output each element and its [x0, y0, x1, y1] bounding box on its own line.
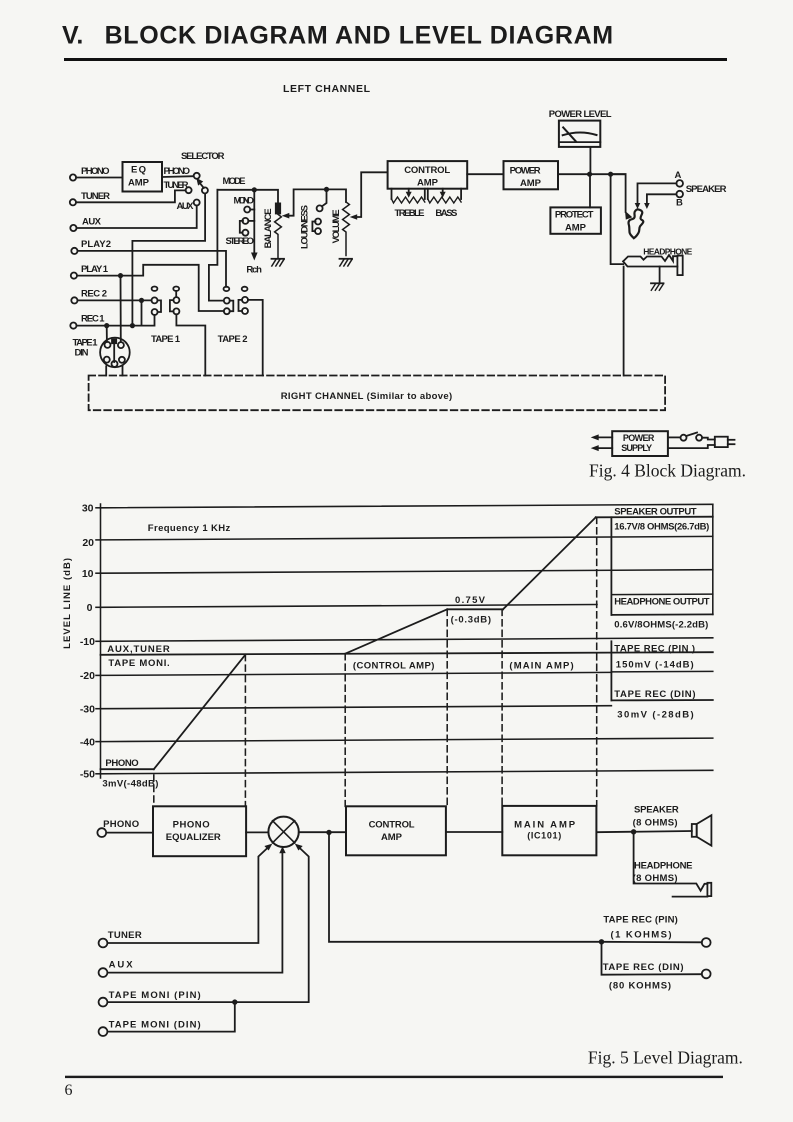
- svg-text:TAPE MONI (DIN): TAPE MONI (DIN): [109, 1020, 201, 1031]
- svg-text:6: 6: [65, 1082, 73, 1099]
- svg-text:RIGHT CHANNEL (Similar to a: RIGHT CHANNEL (Similar to above): [281, 391, 453, 402]
- svg-text:SUPPLY: SUPPLY: [621, 443, 652, 453]
- svg-text:(CONTROL AMP): (CONTROL AMP): [353, 661, 435, 672]
- svg-text:POWER: POWER: [623, 433, 655, 443]
- svg-text:150mV (-14dB): 150mV (-14dB): [616, 660, 694, 671]
- svg-text:AMP: AMP: [381, 832, 403, 843]
- svg-text:(1 KOHMS): (1 KOHMS): [611, 930, 672, 941]
- svg-text:TAPE REC (DIN): TAPE REC (DIN): [603, 962, 684, 973]
- svg-text:(8 OHMS): (8 OHMS): [633, 873, 678, 884]
- svg-text:LEFT CHANNEL: LEFT CHANNEL: [283, 83, 371, 95]
- svg-text:(-0.3dB): (-0.3dB): [451, 615, 491, 626]
- svg-text:REC 2: REC 2: [81, 289, 107, 300]
- svg-text:MODE: MODE: [223, 176, 246, 187]
- svg-text:Frequency 1 KHz: Frequency 1 KHz: [148, 523, 231, 534]
- svg-text:(80 KOHMS): (80 KOHMS): [609, 981, 671, 992]
- svg-text:TAPE REC (DIN): TAPE REC (DIN): [614, 689, 695, 700]
- svg-text:TUNER: TUNER: [81, 191, 110, 202]
- svg-text:-20: -20: [80, 670, 95, 682]
- svg-text:(MAIN AMP): (MAIN AMP): [509, 661, 573, 672]
- svg-text:-10: -10: [80, 636, 95, 648]
- svg-text:V.: V.: [62, 22, 83, 50]
- svg-text:0.75V: 0.75V: [455, 595, 486, 606]
- svg-text:TUNER: TUNER: [108, 930, 142, 941]
- svg-text:BALANCE: BALANCE: [263, 208, 274, 248]
- svg-text:REC 1: REC 1: [81, 314, 105, 325]
- svg-text:CONTROL: CONTROL: [404, 165, 450, 176]
- svg-text:EQUALIZER: EQUALIZER: [166, 832, 221, 843]
- svg-text:B: B: [676, 198, 683, 209]
- svg-text:AUX: AUX: [109, 960, 134, 971]
- svg-text:SELECTOR: SELECTOR: [181, 151, 225, 162]
- svg-text:TAPE MONI.: TAPE MONI.: [108, 658, 169, 669]
- svg-text:TAPE REC (PIN): TAPE REC (PIN): [603, 915, 677, 926]
- svg-text:PROTECT: PROTECT: [555, 210, 594, 221]
- svg-text:0: 0: [87, 602, 93, 614]
- svg-text:VOLUME: VOLUME: [331, 209, 342, 243]
- svg-text:SPEAKER OUTPUT: SPEAKER OUTPUT: [614, 507, 696, 518]
- svg-text:Fig. 5 Level Diagram.: Fig. 5 Level Diagram.: [588, 1048, 743, 1068]
- svg-text:PHONO: PHONO: [81, 166, 110, 177]
- svg-text:TAPE 2: TAPE 2: [218, 334, 248, 345]
- svg-text:AUX,TUNER: AUX,TUNER: [107, 644, 170, 655]
- svg-text:PLAY2: PLAY2: [81, 239, 111, 250]
- svg-text:TAPE MONI (PIN): TAPE MONI (PIN): [109, 990, 201, 1001]
- svg-text:(8 OHMS): (8 OHMS): [633, 818, 678, 829]
- svg-text:AMP: AMP: [417, 178, 439, 189]
- svg-text:CONTROL: CONTROL: [369, 820, 415, 831]
- svg-text:0.6V/8OHMS(-2.2dB): 0.6V/8OHMS(-2.2dB): [614, 620, 708, 631]
- svg-text:HEADPHONE: HEADPHONE: [634, 861, 693, 872]
- svg-text:AMP: AMP: [565, 223, 587, 234]
- svg-text:SPEAKER: SPEAKER: [686, 184, 727, 195]
- svg-text:TAPE 1: TAPE 1: [151, 334, 181, 345]
- svg-text:PHONO: PHONO: [105, 758, 138, 769]
- svg-text:PHONO: PHONO: [173, 820, 210, 831]
- svg-text:MAIN AMP: MAIN AMP: [514, 820, 576, 831]
- svg-text:MONO: MONO: [234, 196, 255, 207]
- svg-text:30: 30: [82, 503, 94, 515]
- svg-text:Fig. 4 Block Diagram.: Fig. 4 Block Diagram.: [589, 461, 746, 481]
- svg-text:3mV(-48dB): 3mV(-48dB): [102, 779, 158, 790]
- svg-text:AUX: AUX: [82, 217, 102, 228]
- svg-text:PLAY 1: PLAY 1: [81, 264, 109, 275]
- svg-text:AUX: AUX: [177, 201, 195, 212]
- svg-text:30mV (-28dB): 30mV (-28dB): [617, 710, 693, 721]
- svg-text:10: 10: [82, 568, 94, 580]
- svg-text:A: A: [675, 170, 682, 181]
- svg-text:TAPE REC (PIN ): TAPE REC (PIN ): [614, 644, 695, 655]
- svg-text:EQ: EQ: [131, 165, 146, 176]
- svg-text:DIN: DIN: [75, 348, 89, 359]
- svg-text:POWER LEVEL: POWER LEVEL: [549, 109, 612, 120]
- svg-text:POWER: POWER: [510, 166, 541, 177]
- svg-text:PHONO: PHONO: [164, 166, 191, 177]
- svg-text:(IC101): (IC101): [527, 831, 561, 841]
- svg-text:AMP: AMP: [520, 178, 542, 189]
- svg-text:TREBLE: TREBLE: [395, 208, 425, 219]
- svg-text:PHONO: PHONO: [103, 819, 139, 830]
- svg-text:BASS: BASS: [435, 208, 457, 219]
- svg-text:20: 20: [82, 537, 94, 549]
- svg-text:SPEAKER: SPEAKER: [634, 805, 679, 816]
- svg-text:-30: -30: [80, 704, 95, 716]
- svg-text:Rch: Rch: [246, 265, 262, 276]
- svg-text:HEADPHONE OUTPUT: HEADPHONE OUTPUT: [614, 597, 710, 608]
- svg-text:LEVEL LINE (dB): LEVEL LINE (dB): [62, 558, 73, 649]
- svg-text:16.7V/8 OHMS(26.7dB): 16.7V/8 OHMS(26.7dB): [614, 522, 709, 533]
- svg-text:-50: -50: [80, 769, 95, 781]
- svg-text:LOUDNESS: LOUDNESS: [300, 205, 311, 249]
- svg-text:BLOCK DIAGRAM AND LEVEL DIAGRA: BLOCK DIAGRAM AND LEVEL DIAGRAM: [105, 22, 613, 50]
- svg-text:STEREO: STEREO: [226, 236, 255, 247]
- svg-text:AMP: AMP: [128, 178, 150, 189]
- svg-text:-40: -40: [80, 737, 95, 749]
